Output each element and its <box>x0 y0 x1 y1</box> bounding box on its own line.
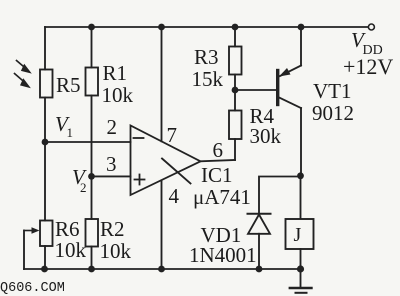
svg-text:VT1: VT1 <box>313 79 352 103</box>
svg-text:R2: R2 <box>100 217 125 241</box>
wire output pin 6 <box>201 160 236 161</box>
op-amp minus sign <box>134 137 144 139</box>
relay J box <box>286 219 314 249</box>
svg-text:9012: 9012 <box>312 101 354 125</box>
wire top supply rail <box>45 26 368 28</box>
svg-text:3: 3 <box>106 152 117 176</box>
node diode-ground junction <box>256 266 263 273</box>
resistor R3 <box>229 47 242 75</box>
node emitter top junction <box>298 24 305 31</box>
svg-text:J: J <box>294 224 302 246</box>
wire relay bottom lead <box>300 249 302 269</box>
wire R5 to R6 (V1 column) <box>44 98 46 221</box>
wire pin 3 (V2 to op-amp non-inverting input) <box>92 175 131 177</box>
potentiometer R6 body <box>40 221 53 247</box>
node V1 <box>42 139 49 146</box>
wire R4 top lead <box>234 90 236 111</box>
svg-text:30k: 30k <box>250 124 282 148</box>
wire pin 4 diagonal lead <box>162 159 191 184</box>
wire relay top lead <box>300 177 302 220</box>
potentiometer R6 wiper arrow <box>24 227 40 233</box>
wire R6 bottom lead <box>44 246 46 269</box>
wire R4 bottom lead <box>234 139 236 160</box>
svg-text:1: 1 <box>67 125 74 140</box>
ground bar 2 <box>296 292 307 294</box>
wire bottom rail <box>24 268 301 270</box>
op-amp plus sign <box>135 175 145 185</box>
svg-text:IC1: IC1 <box>201 163 233 187</box>
wire R1 top lead <box>91 27 93 68</box>
wire R6 wiper to bottom rail <box>23 231 25 270</box>
resistor R1 <box>86 68 99 96</box>
diode VD1 cathode bar <box>248 213 271 215</box>
photoresistor R5 <box>40 70 53 98</box>
light arrow 1 <box>17 61 32 74</box>
node R2-ground junction <box>88 266 95 273</box>
svg-text:μA741: μA741 <box>193 185 251 209</box>
resistor R4 <box>229 111 242 140</box>
transistor Q1 base bar <box>276 71 279 105</box>
svg-text:15k: 15k <box>192 67 224 91</box>
wire R3 top lead <box>234 27 236 47</box>
svg-text:R5: R5 <box>56 73 81 97</box>
wire pin 2 (V1 to op-amp inverting input) <box>45 141 131 143</box>
resistor R2 <box>86 219 99 247</box>
wire left column upper (top rail to R5) <box>44 27 46 70</box>
transistor Q1 collector diagonal <box>279 98 301 109</box>
svg-text:+12V: +12V <box>343 54 393 79</box>
node pin7 top junction <box>158 24 165 31</box>
svg-text:10k: 10k <box>102 83 134 107</box>
transistor Q1 emitter diagonal <box>280 66 301 77</box>
wire R2 bottom lead <box>91 247 93 270</box>
wire diode branch top <box>259 177 301 214</box>
svg-text:R3: R3 <box>194 45 219 69</box>
wire collector vertical <box>300 108 302 176</box>
node R6-ground junction <box>41 266 48 273</box>
wire pin 7 (top rail to op-amp) <box>161 27 163 141</box>
wire base (node to transistor) <box>235 89 276 91</box>
svg-text:10k: 10k <box>100 239 132 263</box>
diode VD1 triangle <box>248 215 270 234</box>
node collector-relay junction <box>297 172 304 179</box>
svg-text:10k: 10k <box>55 238 87 262</box>
wire diode anode lead <box>258 234 260 269</box>
op-amp U1 triangle <box>131 126 201 196</box>
svg-text:Q606.COM: Q606.COM <box>0 281 65 296</box>
wire R1 bottom to R2 (V2 column) <box>91 96 93 220</box>
node ground junction <box>297 265 304 272</box>
svg-text:1N4001: 1N4001 <box>189 243 257 267</box>
svg-text:2: 2 <box>107 115 118 139</box>
svg-text:7: 7 <box>167 123 178 147</box>
ground bar 1 <box>290 287 312 289</box>
light arrow 2 <box>15 74 31 89</box>
transistor Q1 emitter arrowhead <box>279 68 291 77</box>
svg-text:4: 4 <box>169 184 180 208</box>
svg-text:R1: R1 <box>103 61 128 85</box>
node base junction <box>232 87 239 94</box>
ground stem <box>300 269 302 288</box>
svg-text:6: 6 <box>213 138 224 162</box>
wire emitter vertical <box>300 27 302 66</box>
terminal VDD <box>368 24 374 30</box>
wire pin 4 to bottom rail <box>161 181 163 270</box>
svg-text:2: 2 <box>80 180 87 195</box>
node pin4-ground junction <box>158 266 165 273</box>
wire R3 bottom lead <box>234 75 236 91</box>
node R3 top junction <box>232 24 239 31</box>
node V2 <box>88 173 95 180</box>
node R1 top junction <box>88 24 95 31</box>
